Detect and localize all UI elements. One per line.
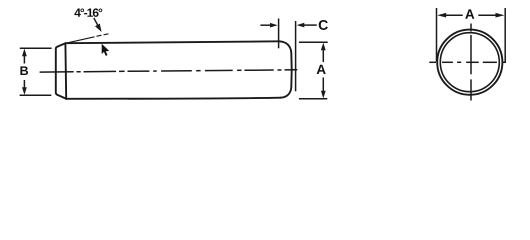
dimension A end view line right (478, 14, 495, 16)
dimension A end view left arrow (437, 13, 446, 18)
dimension A end view extension lines (437, 8, 506, 62)
taper angle line solid (65, 37, 94, 44)
taper angle line dashes (97, 35, 102, 36)
end view horizontal centerline (429, 61, 506, 63)
dimension A side arrow up (321, 43, 326, 51)
dimension B arrow up (22, 49, 27, 57)
pin top edge (65, 41, 279, 43)
pin crowned right end (280, 41, 292, 97)
pin taper tangent line (64, 43, 67, 99)
angle leader arrowhead (95, 24, 102, 32)
dimension C right arrow (297, 23, 305, 28)
dimension C left line (260, 24, 271, 26)
label B (20, 66, 28, 75)
dimension C right line (304, 24, 317, 26)
dimension A side view line (322, 49, 324, 92)
dimension C right extension line (295, 21, 297, 91)
label A side view (317, 65, 326, 74)
end view outer circle (437, 30, 502, 95)
end view chamfer circle (440, 33, 499, 92)
pin left end face and tapers (56, 43, 66, 99)
dimension B extension lines (20, 48, 52, 95)
end view vertical centerline (470, 24, 472, 101)
dimension B line (23, 55, 25, 90)
angle leader line (94, 18, 98, 26)
mouse cursor (102, 44, 110, 56)
dimension A side view extension lines (299, 42, 328, 99)
dimension A end view line left (445, 14, 463, 16)
dimension B arrow down (22, 87, 27, 95)
label 4-16 degrees (74, 8, 102, 17)
label C (319, 20, 328, 30)
dimension C left extension line (278, 19, 280, 49)
pin body side view outline (56, 41, 292, 99)
pin centerline side view (40, 70, 298, 72)
label A end view (465, 9, 474, 18)
dimension A side arrow down (321, 91, 326, 99)
dimension A end view right arrow (496, 13, 505, 18)
pin bottom edge (66, 98, 280, 99)
dimension C left arrow (270, 23, 278, 28)
